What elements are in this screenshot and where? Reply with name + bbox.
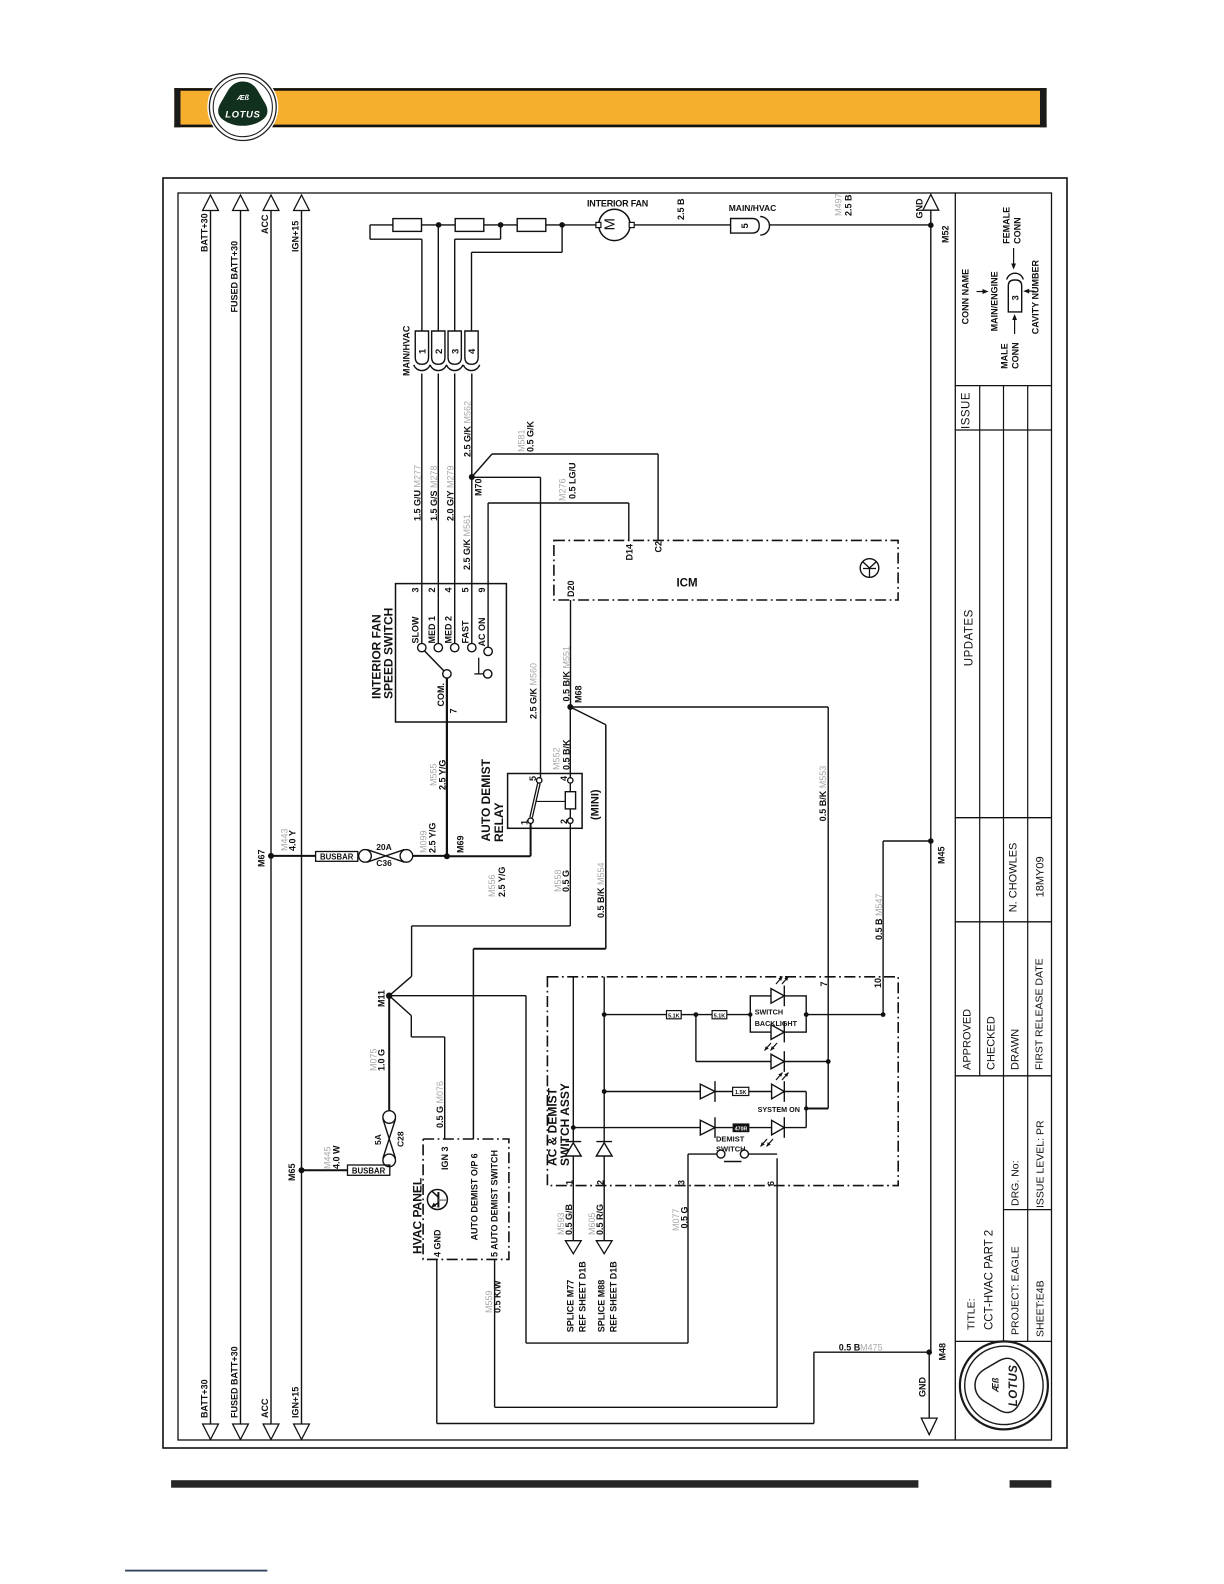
svg-text:0.5 LG/U: 0.5 LG/U — [568, 462, 578, 499]
svg-text:2.5 B: 2.5 B — [844, 194, 854, 216]
svg-text:MALE: MALE — [1000, 343, 1010, 369]
svg-text:0.5 K/W: 0.5 K/W — [493, 1280, 503, 1313]
svg-text:4: 4 — [467, 348, 478, 354]
svg-text:FUSED BATT+30: FUSED BATT+30 — [230, 1346, 240, 1418]
svg-text:2.5 Y/G: 2.5 Y/G — [497, 867, 507, 897]
svg-text:APPROVED: APPROVED — [962, 1009, 974, 1070]
svg-text:7: 7 — [449, 708, 459, 713]
svg-text:2.5 G/K M561: 2.5 G/K M561 — [462, 514, 472, 570]
svg-text:5 AUTO DEMIST SWITCH: 5 AUTO DEMIST SWITCH — [490, 1150, 500, 1257]
svg-text:M67: M67 — [257, 849, 267, 867]
svg-text:2.5 B: 2.5 B — [676, 198, 686, 220]
svg-text:D14: D14 — [625, 544, 635, 561]
svg-text:3: 3 — [1010, 295, 1021, 300]
svg-text:C28: C28 — [396, 1131, 406, 1147]
svg-text:AC ON: AC ON — [477, 618, 487, 647]
svg-text:2: 2 — [559, 819, 569, 824]
svg-text:ICM: ICM — [676, 578, 697, 590]
svg-text:0.5 B: 0.5 B — [839, 1343, 861, 1353]
svg-text:GND: GND — [918, 1377, 928, 1398]
svg-text:10: 10 — [873, 978, 883, 988]
svg-text:MAIN/ENGINE: MAIN/ENGINE — [990, 271, 1000, 331]
svg-text:HVAC PANEL: HVAC PANEL — [411, 1178, 425, 1254]
svg-text:M: M — [602, 218, 619, 231]
svg-text:4.0 Y: 4.0 Y — [288, 830, 298, 851]
svg-text:M69: M69 — [456, 835, 466, 853]
svg-text:5.1K: 5.1K — [668, 1013, 679, 1019]
svg-text:AUTO DEMIST O/P 6: AUTO DEMIST O/P 6 — [470, 1153, 480, 1240]
svg-text:M475: M475 — [860, 1343, 883, 1353]
svg-text:TITLE:: TITLE: — [966, 1298, 978, 1330]
svg-text:3: 3 — [411, 587, 421, 592]
svg-text:M552: M552 — [552, 747, 562, 770]
svg-text:M65: M65 — [287, 1163, 297, 1181]
svg-text:5A: 5A — [373, 1134, 383, 1145]
svg-text:ACC: ACC — [260, 1398, 270, 1418]
svg-text:MAIN/HVAC: MAIN/HVAC — [402, 325, 412, 376]
svg-text:DRAWN: DRAWN — [1010, 1029, 1022, 1070]
svg-text:BATT+30: BATT+30 — [200, 1379, 210, 1418]
svg-text:SYSTEM ON: SYSTEM ON — [758, 1105, 800, 1114]
svg-text:RELAY: RELAY — [492, 802, 506, 842]
svg-text:M48: M48 — [938, 1343, 948, 1361]
svg-text:9: 9 — [477, 587, 487, 592]
svg-text:SPLICE M88: SPLICE M88 — [597, 1280, 607, 1333]
svg-text:MAIN/HVAC: MAIN/HVAC — [729, 203, 777, 213]
svg-text:FUSED BATT+30: FUSED BATT+30 — [230, 241, 240, 313]
svg-text:SHEET:E4B: SHEET:E4B — [1035, 1280, 1047, 1337]
svg-text:6: 6 — [766, 1181, 776, 1186]
svg-text:CONN NAME: CONN NAME — [961, 269, 971, 325]
svg-text:LOTUS: LOTUS — [225, 110, 260, 121]
svg-text:470R: 470R — [735, 1126, 748, 1132]
svg-text:0.5 B/K M554: 0.5 B/K M554 — [596, 862, 606, 918]
svg-text:CONN: CONN — [1011, 342, 1021, 369]
svg-text:CONN: CONN — [1013, 217, 1023, 244]
svg-text:IGN+15: IGN+15 — [291, 221, 301, 252]
svg-text:PROJECT: EAGLE: PROJECT: EAGLE — [1010, 1246, 1022, 1335]
svg-text:Æß: Æß — [991, 1377, 1001, 1393]
svg-text:BUSBAR: BUSBAR — [352, 1166, 386, 1175]
svg-text:C2: C2 — [654, 541, 664, 553]
svg-text:4: 4 — [559, 776, 569, 781]
svg-text:2.5 G/K M562: 2.5 G/K M562 — [463, 401, 473, 457]
svg-text:0.5 R/G: 0.5 R/G — [595, 1204, 605, 1235]
svg-text:0.5 G/B: 0.5 G/B — [564, 1203, 574, 1235]
svg-text:1.0 G: 1.0 G — [377, 1049, 387, 1071]
svg-text:COM.: COM. — [436, 683, 446, 707]
svg-text:SLOW: SLOW — [411, 616, 421, 644]
svg-text:3: 3 — [450, 349, 461, 354]
svg-text:0.5 B M547: 0.5 B M547 — [874, 893, 884, 940]
svg-text:0.5 G: 0.5 G — [561, 870, 571, 892]
svg-text:18MY09: 18MY09 — [1035, 856, 1047, 897]
svg-text:DRG. No:: DRG. No: — [1010, 1160, 1022, 1206]
svg-text:0.5 G M076: 0.5 G M076 — [435, 1081, 445, 1128]
svg-text:CAVITY NUMBER: CAVITY NUMBER — [1031, 260, 1041, 335]
svg-text:INTERIOR FAN: INTERIOR FAN — [587, 199, 648, 209]
svg-text:2.5 G/K M560: 2.5 G/K M560 — [529, 663, 539, 719]
svg-text:REF SHEET D1B: REF SHEET D1B — [609, 1261, 619, 1333]
svg-text:IGN 3: IGN 3 — [440, 1146, 450, 1170]
svg-text:FEMALE: FEMALE — [1002, 207, 1012, 244]
svg-text:LOTUS: LOTUS — [1008, 1364, 1020, 1406]
svg-text:5.1K: 5.1K — [714, 1013, 725, 1019]
svg-text:ISSUE LEVEL: PR: ISSUE LEVEL: PR — [1035, 1120, 1047, 1208]
svg-text:MED 1: MED 1 — [427, 616, 437, 644]
svg-text:M45: M45 — [937, 846, 947, 864]
svg-text:M556: M556 — [487, 874, 497, 897]
svg-text:3: 3 — [677, 1180, 687, 1185]
svg-text:2: 2 — [427, 587, 437, 592]
svg-text:DEMIST: DEMIST — [716, 1134, 745, 1143]
svg-text:AUTO DEMIST: AUTO DEMIST — [479, 758, 493, 841]
svg-text:0.5 B/K M553: 0.5 B/K M553 — [818, 766, 828, 822]
svg-text:Æß: Æß — [236, 93, 250, 102]
svg-text:N. CHOWLES: N. CHOWLES — [1008, 843, 1020, 913]
svg-text:5: 5 — [528, 776, 538, 781]
svg-text:BUSBAR: BUSBAR — [320, 853, 354, 862]
svg-text:1: 1 — [519, 820, 529, 825]
svg-text:5: 5 — [740, 223, 751, 229]
svg-text:M11: M11 — [377, 990, 387, 1007]
svg-text:2.5 Y/G: 2.5 Y/G — [438, 760, 448, 790]
svg-text:CHECKED: CHECKED — [986, 1016, 998, 1070]
svg-text:M497: M497 — [834, 193, 844, 216]
svg-text:1.5K: 1.5K — [735, 1090, 746, 1096]
svg-text:D20: D20 — [566, 580, 576, 597]
svg-text:BATT+30: BATT+30 — [200, 213, 210, 252]
svg-text:SWITCH: SWITCH — [755, 1008, 783, 1017]
svg-text:M276: M276 — [558, 478, 568, 501]
svg-text:REF SHEET D1B: REF SHEET D1B — [578, 1261, 588, 1333]
svg-text:M68: M68 — [574, 685, 584, 703]
svg-text:0.5 B/K M551: 0.5 B/K M551 — [562, 646, 572, 702]
svg-text:2.0 G/Y M279: 2.0 G/Y M279 — [446, 465, 456, 521]
svg-text:0.5 G/K: 0.5 G/K — [526, 420, 536, 452]
svg-text:5: 5 — [461, 587, 471, 592]
svg-text:ISSUE: ISSUE — [961, 392, 973, 429]
svg-text:FAST: FAST — [461, 620, 471, 644]
svg-text:GND: GND — [915, 198, 925, 219]
svg-text:1: 1 — [418, 348, 429, 354]
svg-text:UPDATES: UPDATES — [964, 609, 976, 666]
svg-text:4: 4 — [443, 587, 453, 592]
svg-text:4.0 W: 4.0 W — [332, 1145, 342, 1169]
svg-text:4 GND: 4 GND — [433, 1229, 443, 1257]
svg-text:IGN+15: IGN+15 — [291, 1387, 301, 1418]
svg-text:0.5 G: 0.5 G — [679, 1206, 689, 1228]
svg-text:M52: M52 — [941, 225, 951, 243]
svg-text:CCT-HVAC PART 2: CCT-HVAC PART 2 — [984, 1230, 996, 1330]
svg-text:SPLICE M77: SPLICE M77 — [566, 1280, 576, 1333]
svg-text:1.5 G/U M277: 1.5 G/U M277 — [413, 465, 423, 521]
svg-text:FIRST RELEASE DATE: FIRST RELEASE DATE — [1034, 958, 1046, 1070]
svg-text:MED 2: MED 2 — [443, 616, 453, 644]
svg-text:0.5 B/K: 0.5 B/K — [561, 739, 571, 770]
svg-text:(MINI): (MINI) — [590, 789, 602, 820]
svg-text:ACC: ACC — [260, 214, 270, 234]
svg-text:2: 2 — [434, 349, 445, 354]
svg-text:C36: C36 — [376, 858, 392, 868]
svg-text:M70: M70 — [474, 478, 484, 496]
svg-text:20A: 20A — [376, 842, 392, 852]
svg-text:2.5 Y/G: 2.5 Y/G — [428, 823, 438, 853]
svg-text:1.5 G/S M278: 1.5 G/S M278 — [429, 465, 439, 521]
svg-text:SPEED SWITCH: SPEED SWITCH — [382, 608, 396, 699]
